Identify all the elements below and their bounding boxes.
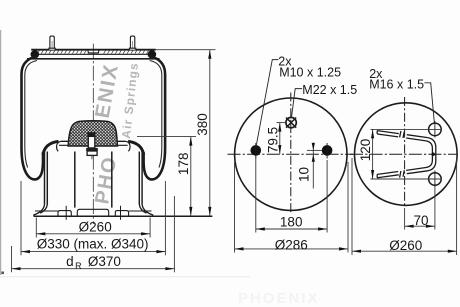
svg-text:180: 180: [280, 214, 303, 229]
svg-text:Ø286: Ø286: [275, 237, 308, 252]
svg-text:M22 x 1.5: M22 x 1.5: [302, 83, 357, 97]
svg-text:M10 x 1.25: M10 x 1.25: [279, 66, 341, 80]
svg-text:Ø330 (max. Ø340): Ø330 (max. Ø340): [37, 236, 149, 251]
svg-text:Ø260: Ø260: [79, 220, 112, 235]
svg-text:79.5: 79.5: [266, 127, 281, 153]
svg-text:120: 120: [358, 139, 373, 162]
svg-text:70: 70: [413, 213, 428, 228]
svg-text:Ø260: Ø260: [389, 238, 422, 253]
svg-text:PHOENIX: PHOENIX: [238, 290, 320, 307]
svg-text:380: 380: [195, 113, 210, 136]
svg-text:M16 x 1.5: M16 x 1.5: [369, 78, 424, 92]
svg-text:178: 178: [176, 153, 191, 176]
svg-text:10: 10: [296, 167, 311, 182]
